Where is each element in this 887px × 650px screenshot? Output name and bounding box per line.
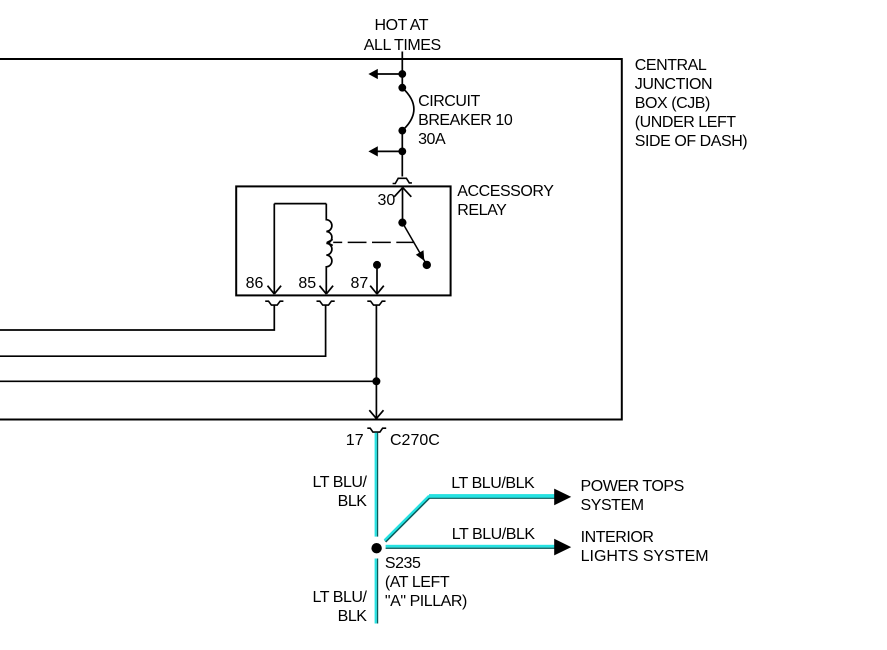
connector half below relay pin 85: [317, 301, 335, 305]
circuit breaker CB10 upper terminal dot: [398, 84, 406, 92]
cyan wire: vertical below splice S235: [375, 559, 379, 624]
relay pin 85 arrow: [320, 286, 334, 294]
wire: pin 86 down and left to edge: [0, 306, 274, 331]
relay pin 87 contact dot and lead with arrow: [370, 261, 384, 294]
relay switch lower contact dot: [423, 261, 431, 269]
central junction box CJB outline (top, right, bottom edges): [0, 58, 622, 421]
label POWER TOPS SYSTEM: [581, 477, 684, 515]
circuit breaker CB10 lower terminal dot: [398, 127, 406, 135]
wire: breaker lower terminal down: [401, 131, 403, 177]
relay switch pivot dot (pin 30): [398, 219, 406, 227]
relay switch blade with arrowhead: [402, 223, 426, 265]
label wire color LT BLU/BLK (interior lights branch): [452, 525, 535, 544]
wire: pin 87 down to CJB bottom with arrow: [369, 306, 383, 419]
cyan wire: diagonal + horizontal branch to POWER TOPS SYSTEM: [385, 494, 555, 541]
relay coil (pin 85 side): [326, 204, 332, 294]
wire: pin 85 down and left to edge: [0, 306, 326, 357]
label pin 85: [298, 274, 316, 293]
connector half below relay pin 86: [265, 301, 283, 305]
label wire color LT BLU/BLK (upper left): [290, 473, 367, 511]
label HOT AT ALL TIMES: [375, 16, 429, 35]
label pin 86: [246, 274, 264, 293]
cyan wire LT BLU/BLK: vertical from C270C to splice S235: [375, 433, 379, 537]
label splice S235 (AT LEFT "A" PILLAR): [385, 554, 467, 611]
relay actuation dashed line with arrow toward coil: [327, 239, 415, 245]
label wire color LT BLU/BLK (lower left): [290, 588, 367, 626]
cyan wire: horizontal branch to INTERIOR LIGHTS SYSTEM: [386, 545, 555, 549]
node dot below breaker with take-off arrow left: [368, 146, 406, 156]
circuit breaker CB10 element (arc): [402, 88, 414, 131]
connector C270C half below CJB: [367, 428, 386, 432]
relay coil top wire: [274, 203, 326, 205]
splice node S235 dot: [371, 543, 381, 553]
label connector C270C: [390, 431, 440, 450]
relay coil left leg down to pin 86 arrow: [268, 204, 282, 294]
label CIRCUIT BREAKER 10 30A: [418, 92, 512, 149]
label ACCESSORY RELAY: [457, 182, 553, 220]
arrow to POWER TOPS SYSTEM: [554, 489, 571, 506]
node dot above circuit breaker with take-off arrow left: [368, 69, 406, 79]
label CENTRAL JUNCTION BOX (CJB) (UNDER LEFT SIDE OF DASH): [635, 56, 747, 151]
label INTERIOR LIGHTS SYSTEM: [581, 528, 654, 547]
accessory relay box: [236, 186, 450, 295]
label pin 87: [351, 274, 369, 293]
connector half below relay pin 87: [367, 301, 385, 305]
label pin 17: [346, 431, 364, 450]
connector half above accessory relay: [393, 178, 412, 183]
arrow to INTERIOR LIGHTS SYSTEM: [554, 539, 571, 556]
label wire color LT BLU/BLK (power tops branch): [451, 474, 534, 493]
wire: branch left from pin 87 node to edge: [0, 380, 376, 382]
wire: hot feed from HOT AT ALL TIMES into CJB: [401, 52, 403, 89]
label pin 30: [378, 191, 396, 210]
relay pin 30 arrow (pointing up into box): [394, 188, 411, 223]
junction dot on pin 87 wire: [372, 377, 380, 385]
